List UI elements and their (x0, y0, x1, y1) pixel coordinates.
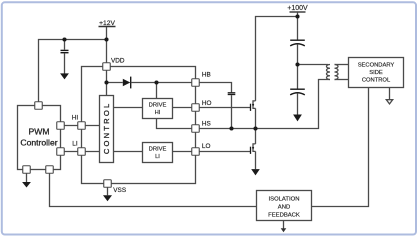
capacitor C3 bus upper (290, 40, 305, 46)
pin PWM top (35, 102, 43, 110)
svg-text:VSS: VSS (113, 187, 126, 194)
node junction +100V (295, 14, 299, 18)
wire to DRIVE HI top (156, 83, 158, 99)
wire DRIVE HI to HO pin (173, 107, 196, 109)
pin PWM gnd (23, 166, 31, 174)
svg-text:HI: HI (155, 110, 161, 116)
wire secondary top to SECONDARY SIDE CONTROL (335, 64, 349, 66)
wire +12V vertical to VDD and CONTROL (106, 27, 108, 96)
node +12V rail bar (99, 26, 116, 28)
wire diode anode from VDD node (107, 82, 123, 84)
wire secondary bottom to SECONDARY SIDE CONTROL (335, 79, 349, 81)
pin HB (192, 79, 200, 87)
pin LO (192, 148, 200, 156)
arrow under ISOLATION box (281, 228, 287, 232)
wire SECONDARY box to open ground arrow (389, 88, 391, 100)
node junction diode cathode (154, 80, 158, 84)
wire HB pin to bootstrap cap (196, 83, 232, 93)
node junction bootstrap HS (229, 126, 233, 130)
pin VSS (104, 180, 112, 188)
svg-text:FEEDBACK: FEEDBACK (268, 212, 300, 218)
wire bus node to transformer primary top (298, 64, 329, 66)
node junction VDD diode anode (104, 80, 108, 84)
svg-text:+100V: +100V (287, 5, 308, 12)
capacitor C4 bus lower (290, 89, 305, 95)
wire between C3 and node (297, 45, 299, 90)
svg-text:Controller: Controller (20, 138, 57, 148)
transformer T1 primary winding (326, 65, 330, 80)
node junction +12V (104, 37, 108, 41)
capacitor C1 lead bottom (64, 53, 66, 73)
open arrow under SECONDARY box (386, 100, 392, 104)
ground under VSS (103, 195, 112, 201)
svg-text:VDD: VDD (111, 57, 125, 64)
svg-text:DRIVE: DRIVE (149, 146, 167, 152)
ground under Q2 (251, 169, 260, 175)
wire bootstrap cap to HS net (231, 95, 233, 128)
node junction bus caps mid (295, 62, 299, 66)
capacitor C1 lead top (64, 40, 66, 50)
pin LI (78, 148, 86, 156)
svg-text:HI: HI (72, 114, 79, 121)
wire DRIVE HI to HS pin (157, 119, 196, 129)
wire VSS pin down (107, 187, 109, 195)
capacitor C1 (61, 50, 69, 52)
transistor Q2 low-side MOSFET (251, 129, 256, 154)
svg-text:HS: HS (202, 120, 211, 127)
node junction C1 tap (62, 37, 66, 41)
svg-text:HB: HB (202, 71, 211, 78)
wire C4 to ground (297, 94, 299, 115)
svg-text:+12V: +12V (99, 20, 115, 27)
pin PWM LI out (57, 148, 65, 156)
svg-text:LO: LO (202, 143, 211, 150)
svg-text:PWM: PWM (28, 127, 49, 137)
pin VDD (103, 63, 111, 71)
wire PWM LI to CONTROL (61, 151, 100, 153)
svg-text:HO: HO (202, 100, 212, 107)
pin HO (192, 104, 200, 112)
pin HI (78, 122, 86, 130)
svg-text:LI: LI (155, 154, 160, 160)
diode D1 (123, 77, 131, 89)
pin HS (192, 125, 200, 133)
gate driver IC U1 outline (82, 67, 196, 184)
wire +12V rail to PWM top pin (39, 40, 107, 106)
wire HO pin to Q1 gate (196, 107, 251, 109)
wire CONTROL to DRIVE HI (114, 107, 143, 109)
wire feedback from PWM to ISOLATION (50, 173, 257, 206)
svg-text:SECONDARY: SECONDARY (358, 62, 395, 68)
ground under C4 (293, 115, 302, 122)
wire +100V rail down (297, 13, 299, 40)
block DRIVE HI (143, 99, 173, 119)
wire SECONDARY box to ISOLATION box (312, 88, 369, 207)
block DRIVE LI (143, 143, 173, 163)
wire PWM HI to CONTROL (61, 125, 100, 127)
wire CONTROL to DRIVE LI (114, 151, 143, 153)
svg-text:ISOLATION: ISOLATION (269, 197, 300, 203)
svg-text:LI: LI (72, 141, 78, 148)
block SECONDARY SIDE CONTROL (349, 58, 404, 88)
ground under C1 (60, 73, 69, 79)
wire PWM ground pin (26, 173, 28, 182)
pin PWM HI out (57, 122, 65, 130)
wire ISOLATION box down arrow (283, 221, 285, 229)
IC pins (23, 63, 200, 188)
svg-text:CONTROL: CONTROL (102, 102, 111, 155)
transistor Q1 high-side MOSFET (251, 101, 256, 111)
ground under PWM (22, 182, 31, 188)
pin PWM fb (46, 166, 54, 174)
svg-text:SIDE: SIDE (369, 70, 383, 76)
svg-text:CONTROL: CONTROL (362, 77, 391, 83)
node junction Q1 source HS (253, 126, 257, 130)
node +100V rail bar (290, 11, 306, 13)
wire Q2 source to ground (255, 151, 257, 169)
wire LO pin to Q2 gate (196, 151, 251, 153)
svg-text:AND: AND (278, 205, 290, 211)
block CONTROL (100, 96, 114, 163)
wire DRIVE LI to LO pin (173, 151, 196, 153)
wire diode cathode to HB pin (131, 82, 196, 84)
wire +100V to Q1 drain (256, 17, 298, 101)
block ISOLATION AND FEEDBACK (257, 191, 312, 221)
capacitor C2 bootstrap (228, 93, 236, 95)
block PWM Controller (18, 106, 61, 170)
transformer T1 secondary winding (335, 65, 339, 80)
svg-text:DRIVE: DRIVE (149, 103, 167, 109)
wire Q1 source to HS net (255, 108, 257, 128)
wire HS net to transformer primary (196, 80, 331, 129)
